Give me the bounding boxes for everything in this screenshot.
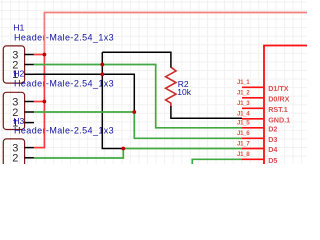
svg-text:J1_5: J1_5 — [237, 120, 250, 127]
svg-text:D5: D5 — [268, 156, 277, 164]
svg-text:J1_7: J1_7 — [237, 140, 250, 147]
svg-text:Header-Male-2.54_1x3: Header-Male-2.54_1x3 — [14, 32, 114, 42]
svg-text:H2: H2 — [13, 69, 24, 79]
svg-text:D4: D4 — [268, 145, 277, 154]
svg-text:Header-Male-2.54_1x3: Header-Male-2.54_1x3 — [14, 78, 114, 88]
svg-text:D2: D2 — [268, 124, 277, 133]
svg-text:D1/TX: D1/TX — [268, 84, 289, 93]
svg-text:H3: H3 — [13, 116, 24, 126]
svg-text:J1_4: J1_4 — [237, 111, 250, 118]
svg-text:RST.1: RST.1 — [268, 105, 288, 114]
svg-text:J1_2: J1_2 — [237, 90, 250, 97]
svg-text:Header-Male-2.54_1x3: Header-Male-2.54_1x3 — [14, 126, 114, 136]
svg-text:1: 1 — [12, 163, 18, 164]
svg-text:J1_1: J1_1 — [237, 79, 250, 86]
svg-text:J1_8: J1_8 — [237, 151, 250, 158]
svg-text:D0/RX: D0/RX — [268, 94, 289, 103]
svg-text:J1_6: J1_6 — [237, 130, 250, 137]
svg-text:H1: H1 — [13, 22, 24, 32]
svg-text:D3: D3 — [268, 135, 277, 144]
svg-text:GND.1: GND.1 — [268, 115, 290, 124]
svg-text:10k: 10k — [177, 87, 191, 97]
svg-text:J1_3: J1_3 — [237, 100, 250, 107]
